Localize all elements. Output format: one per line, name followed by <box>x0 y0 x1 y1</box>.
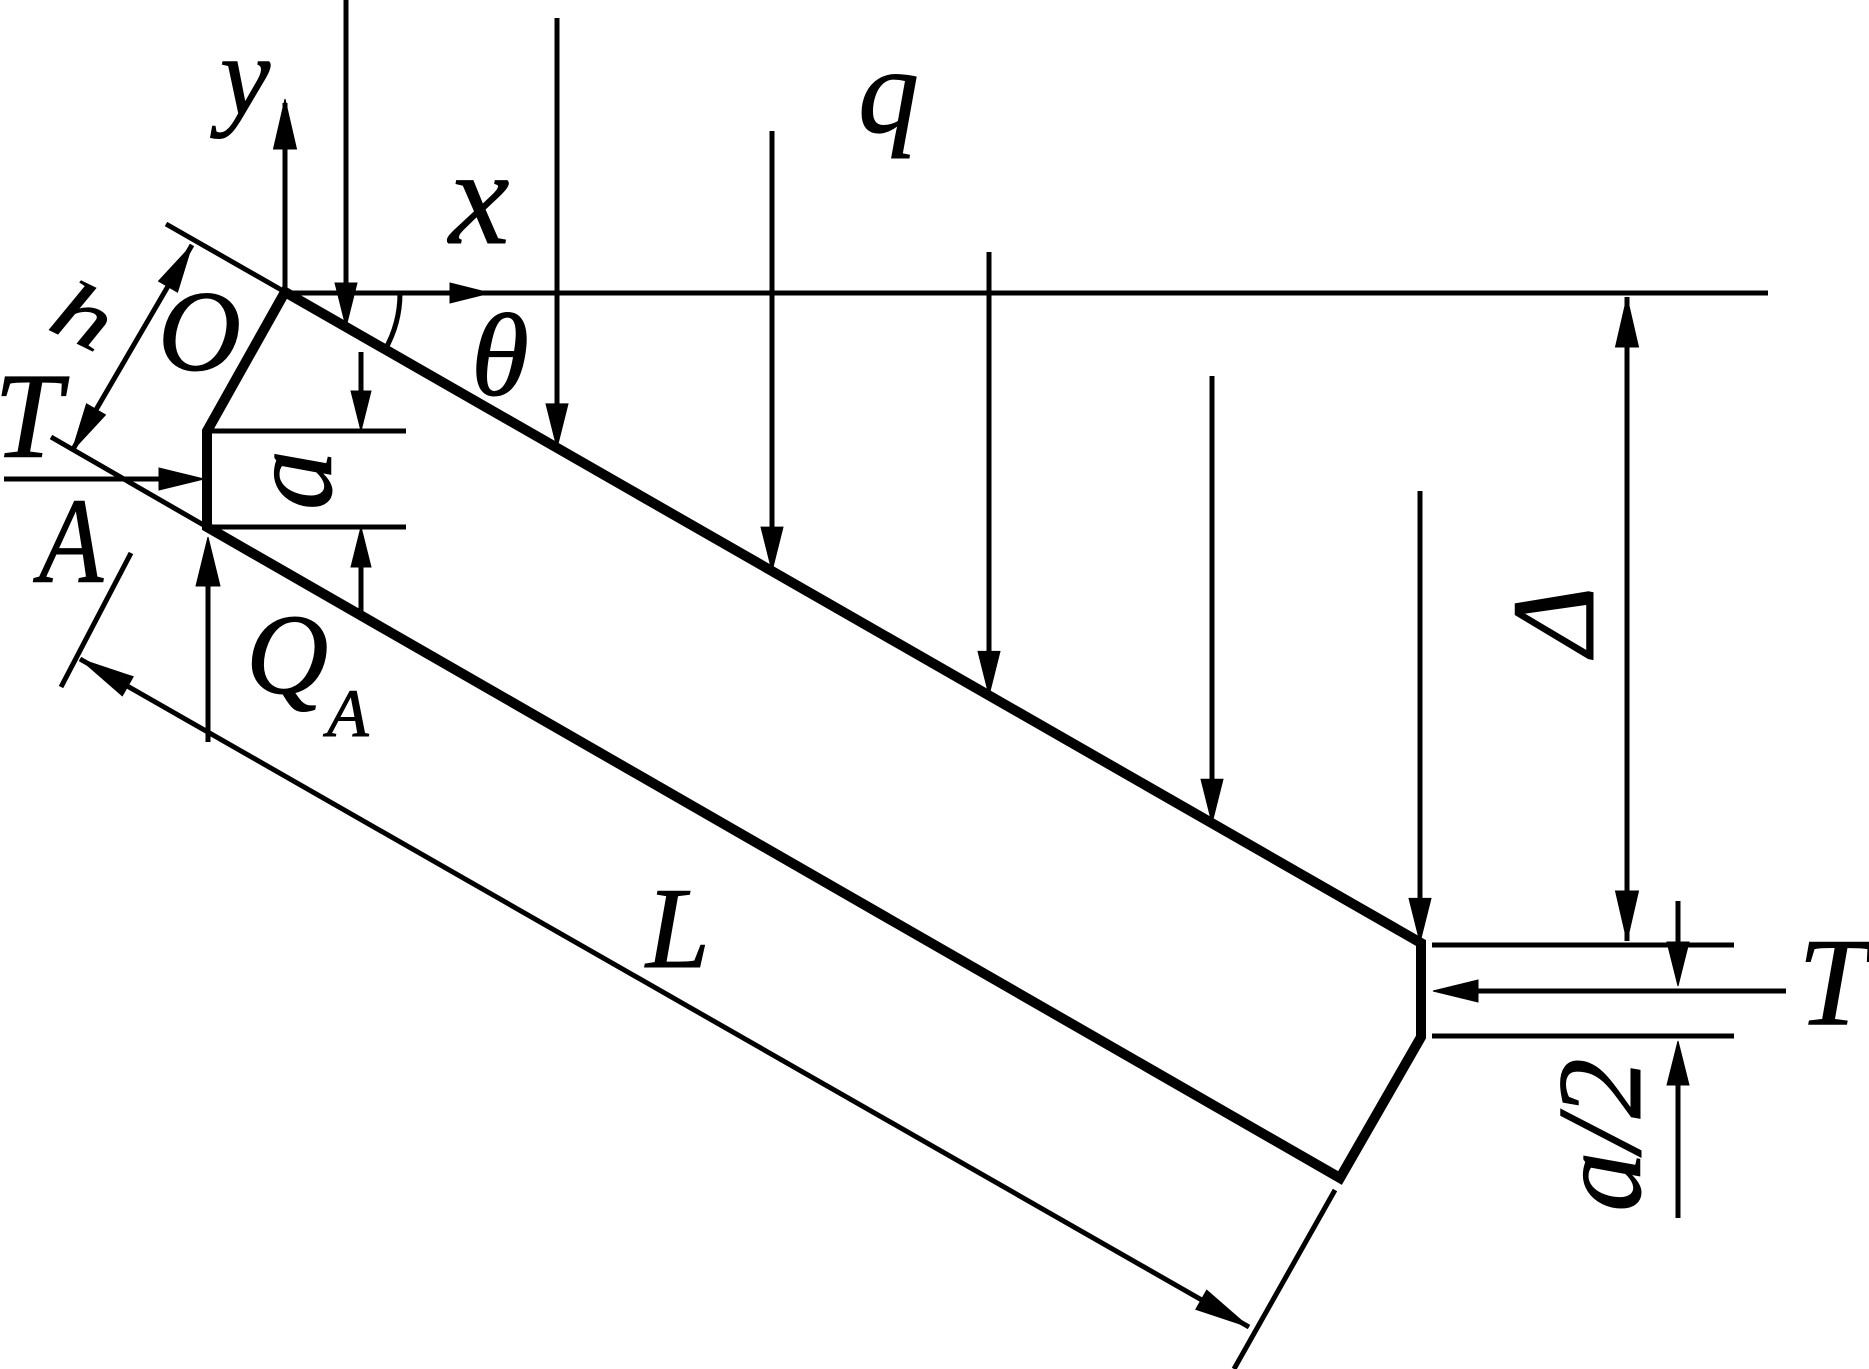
svg-text:θ: θ <box>471 290 529 421</box>
beam outline <box>207 292 1421 1178</box>
q arrow 3 <box>761 131 783 571</box>
reaction Q_A arrow <box>196 537 220 742</box>
dimension a upper arrow <box>351 352 371 431</box>
force T right arrow <box>1433 980 1786 1002</box>
dimension a/2 upper arrow <box>1667 901 1689 986</box>
dimension L extension lines <box>61 553 1335 1369</box>
svg-text:L: L <box>644 865 710 992</box>
svg-text:x: x <box>447 123 509 273</box>
svg-text:y: y <box>210 14 271 139</box>
svg-text:Δ: Δ <box>1488 586 1619 659</box>
q arrow 6 <box>1409 491 1431 942</box>
q arrow 5 <box>1201 376 1223 823</box>
svg-text:Q: Q <box>246 591 328 718</box>
dimension a lower arrow <box>351 527 371 616</box>
dimension a (left) ticks <box>210 431 406 527</box>
x axis <box>285 283 1768 303</box>
right end tick lower <box>1432 1034 1734 1039</box>
svg-text:a/2: a/2 <box>1533 1058 1666 1211</box>
dimension h extension lines <box>51 224 285 527</box>
svg-text:T: T <box>0 349 70 484</box>
q arrow 1 <box>335 0 357 327</box>
dimension L arrow line <box>80 659 1249 1327</box>
force T left arrow <box>4 468 204 490</box>
dimension Delta line <box>1616 297 1639 941</box>
y axis <box>274 99 297 293</box>
q arrow 4 <box>978 252 1000 695</box>
dimension a/2 lower arrow <box>1667 1041 1689 1218</box>
svg-text:T: T <box>1798 914 1869 1052</box>
svg-text:A: A <box>323 675 369 751</box>
svg-text:a: a <box>224 450 357 510</box>
angle arc theta <box>385 293 400 351</box>
svg-text:A: A <box>33 474 104 609</box>
dimension h arrow line <box>72 245 192 451</box>
right end tick upper <box>1432 943 1734 948</box>
q arrow 2 <box>546 18 568 448</box>
svg-text:q: q <box>858 24 919 159</box>
